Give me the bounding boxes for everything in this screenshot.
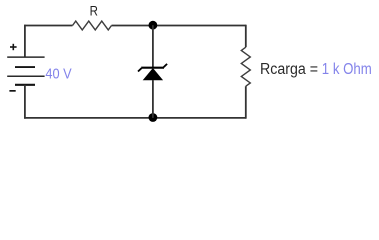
wire zener top segment <box>152 25 154 67</box>
zener diode D1 anode triangle <box>143 68 163 80</box>
battery V1 plate 4 short <box>15 84 35 86</box>
resistor Rcarga value 1 k Ohm <box>322 61 372 78</box>
battery V1 plus label <box>10 44 17 50</box>
svg-text:R: R <box>90 2 98 18</box>
resistor Rcarga name label <box>260 61 318 78</box>
zener diode D1 left wing <box>138 68 142 71</box>
svg-text:1 k Ohm: 1 k Ohm <box>322 61 372 78</box>
wire zener bottom segment <box>152 80 154 118</box>
battery V1 plate 3 long <box>7 75 44 77</box>
wire bottom horizontal <box>24 117 246 119</box>
wire load branch bottom <box>245 86 247 119</box>
battery V1 minus label <box>9 90 15 92</box>
svg-text:40 V: 40 V <box>45 65 71 82</box>
wire load branch top <box>245 25 247 48</box>
wire top horizontal left segment <box>24 25 72 27</box>
resistor R zigzag <box>73 21 112 30</box>
wire battery positive stub <box>24 25 26 58</box>
wire top horizontal right segment <box>112 25 246 27</box>
battery V1 plate 2 short <box>15 66 35 68</box>
svg-text:Rcarga =: Rcarga = <box>260 61 318 78</box>
resistor Rcarga zigzag <box>241 47 250 86</box>
node A junction dot top <box>149 21 158 30</box>
resistor R label <box>90 2 98 18</box>
zener diode D1 right wing <box>164 64 168 67</box>
battery V1 plate 1 long <box>7 56 44 58</box>
zener diode D1 cathode bar <box>141 67 164 69</box>
battery V1 value 40 V <box>45 65 71 82</box>
wire battery negative stub <box>24 85 26 119</box>
node B junction dot bottom <box>149 113 158 122</box>
